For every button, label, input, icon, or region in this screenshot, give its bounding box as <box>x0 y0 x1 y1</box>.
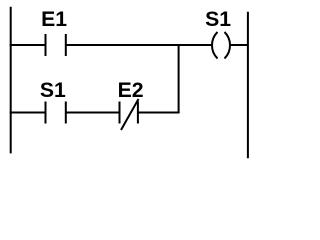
svg-text:E2: E2 <box>118 79 144 102</box>
svg-text:S1: S1 <box>205 8 231 31</box>
right power rail <box>247 12 249 159</box>
coil S1 <box>212 32 230 59</box>
wire: left rail to contact S1 <box>10 112 46 114</box>
svg-text:E1: E1 <box>41 8 67 31</box>
contact E2 (normally closed) <box>120 99 139 130</box>
wire: contact E1 to coil S1 <box>66 44 213 46</box>
wire: contact E2 to branch corner <box>138 112 180 114</box>
wire: contact S1 to contact E2 <box>66 112 120 114</box>
svg-text:S1: S1 <box>40 79 66 102</box>
wire: coil S1 to right rail <box>229 44 248 46</box>
wire: branch up to top rung <box>178 44 180 113</box>
wire: left rail to contact E1 <box>10 44 46 46</box>
left power rail <box>10 7 12 154</box>
contact S1 (normally open) <box>46 102 66 124</box>
contact E1 (normally open) <box>46 34 66 56</box>
